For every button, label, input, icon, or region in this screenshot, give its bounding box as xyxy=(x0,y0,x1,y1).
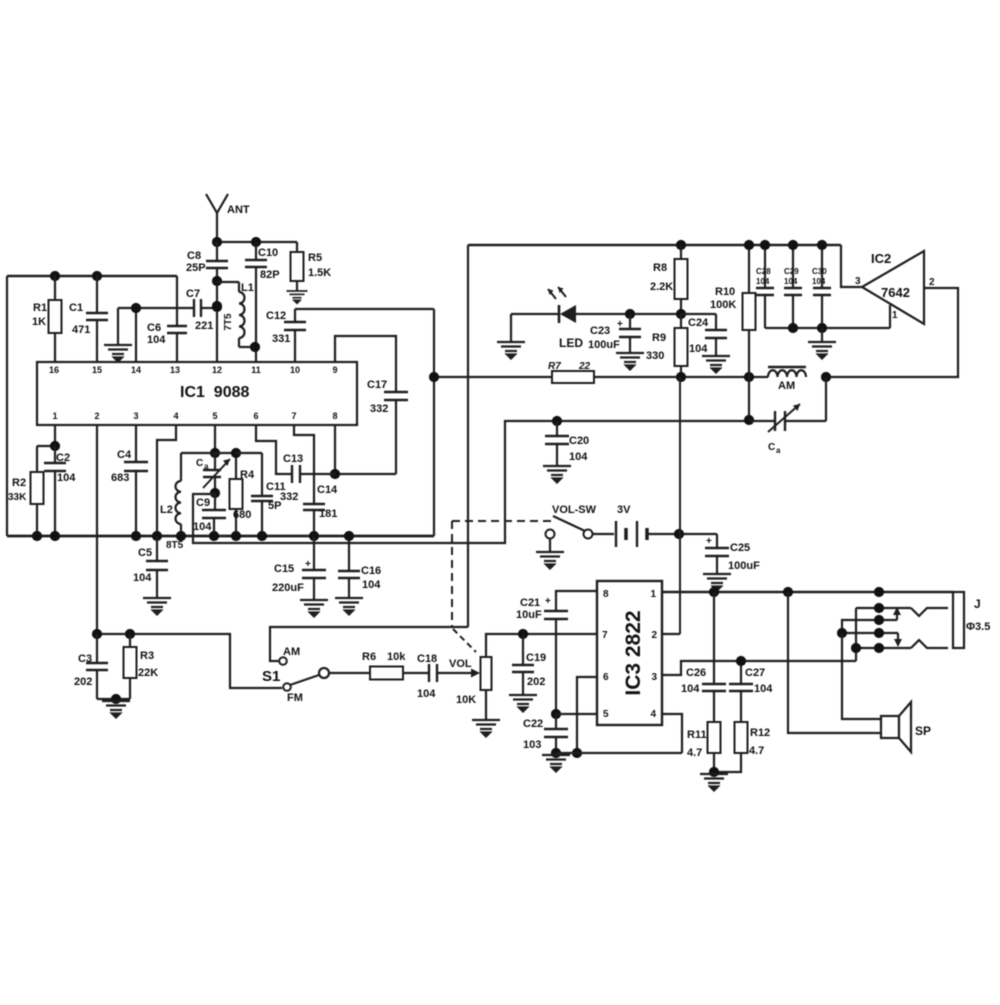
svg-text:471: 471 xyxy=(72,324,90,336)
svg-text:100K: 100K xyxy=(710,299,736,311)
wire rail down to S1 AM xyxy=(467,245,469,627)
wire pin4 jog to bus xyxy=(157,425,176,536)
svg-text:C15: C15 xyxy=(274,563,294,575)
svg-text:C: C xyxy=(196,458,203,469)
svg-text:100uF: 100uF xyxy=(588,339,620,351)
resistor R5 xyxy=(296,242,298,252)
node R9 bottom xyxy=(676,372,686,382)
inductor L2 xyxy=(181,452,236,454)
svg-text:C1: C1 xyxy=(69,302,83,314)
wire top-left supply rail xyxy=(7,275,177,278)
wire C18 to VOL wiper xyxy=(437,672,471,674)
wire LED left to ground xyxy=(510,314,512,341)
svg-text:C26: C26 xyxy=(686,667,706,679)
node pin1 xyxy=(50,441,60,451)
node C19 top xyxy=(518,629,528,639)
IC1 9088 radio IC body xyxy=(37,362,357,425)
svg-text:331: 331 xyxy=(272,333,290,345)
wire jack row5 xyxy=(856,647,911,649)
ground below VOL-SW xyxy=(536,552,564,569)
ground below C25 xyxy=(703,574,731,591)
resistor R1 xyxy=(54,276,56,300)
capacitor C25 electrolytic xyxy=(716,534,718,547)
capacitor C8 xyxy=(216,242,218,260)
svg-text:R10: R10 xyxy=(715,286,735,298)
svg-text:C20: C20 xyxy=(569,435,589,447)
wire audio takeoff around C9 xyxy=(193,421,749,543)
wire speaker bottom return xyxy=(788,592,881,733)
svg-text:202: 202 xyxy=(527,676,545,688)
node C2 bus xyxy=(50,531,60,541)
svg-text:C3: C3 xyxy=(78,653,92,665)
node R11 R12 ground xyxy=(709,767,719,777)
svg-text:7T5: 7T5 xyxy=(223,313,234,331)
node Ca C9 xyxy=(210,488,220,498)
svg-text:R12: R12 xyxy=(750,727,770,739)
svg-text:7: 7 xyxy=(602,630,608,641)
wire jack row4 arrow xyxy=(842,632,879,634)
capacitor C2 xyxy=(54,446,56,462)
svg-text:1K: 1K xyxy=(32,316,46,328)
node below C8 xyxy=(212,276,222,286)
svg-text:680: 680 xyxy=(233,509,251,521)
node row4 speaker xyxy=(837,628,847,638)
node C30 bottom ground xyxy=(817,323,827,333)
wire R7 to R9 R10 xyxy=(594,376,768,378)
capacitor C14 xyxy=(303,503,325,505)
svg-text:C29: C29 xyxy=(784,267,799,276)
svg-text:100uF: 100uF xyxy=(728,560,760,572)
svg-text:J: J xyxy=(974,597,981,611)
wire VOL top to IC3 pin7 xyxy=(486,634,597,657)
wire R6 to C18 xyxy=(403,672,428,674)
wire pin5 xyxy=(556,713,597,715)
capacitor C19 xyxy=(522,634,524,664)
node R10 bottom xyxy=(744,372,754,382)
resistor R9 xyxy=(680,314,682,328)
svg-text:C17: C17 xyxy=(367,379,387,391)
svg-text:104: 104 xyxy=(754,683,773,695)
ground below C23 xyxy=(616,353,644,370)
ground bus wire xyxy=(7,535,434,538)
svg-text:9: 9 xyxy=(332,365,337,375)
wire rail corner to IC2 pin3 xyxy=(841,245,862,287)
svg-text:221: 221 xyxy=(195,320,213,332)
node C28 rail xyxy=(760,240,770,250)
capacitor C22 xyxy=(555,714,557,728)
svg-text:L2: L2 xyxy=(160,504,173,516)
op-amp IC2 7642 xyxy=(862,251,924,324)
node jack feed xyxy=(874,587,884,597)
svg-text:12: 12 xyxy=(212,365,222,375)
node C23 top xyxy=(625,309,635,319)
svg-text:R11: R11 xyxy=(687,729,707,741)
svg-text:104: 104 xyxy=(681,683,700,695)
svg-text:C14: C14 xyxy=(317,484,338,496)
wire pin14 / ground stub xyxy=(118,307,193,309)
svg-text:15: 15 xyxy=(92,365,102,375)
ground IC2 pin1 line xyxy=(821,328,823,341)
wire pin8 down xyxy=(334,425,336,474)
svg-text:3V: 3V xyxy=(617,504,631,516)
node C29 rail xyxy=(788,240,798,250)
node pin12 C7 xyxy=(212,301,222,311)
node C4 bus xyxy=(131,531,141,541)
node pin14 wire xyxy=(131,303,141,313)
svg-text:C9: C9 xyxy=(196,497,210,509)
resistor R6 xyxy=(370,667,403,680)
svg-text:8: 8 xyxy=(603,589,609,600)
ground below LED wire xyxy=(497,342,525,359)
svg-text:Φ3.5: Φ3.5 xyxy=(966,621,990,633)
wire S1 common to R6 xyxy=(329,672,370,674)
svg-text:C12: C12 xyxy=(266,310,286,322)
svg-text:10: 10 xyxy=(290,365,300,375)
wire VOL-SW to ground xyxy=(549,539,551,551)
svg-text:C8: C8 xyxy=(187,250,201,262)
svg-text:R4: R4 xyxy=(240,469,255,481)
ground below C16 xyxy=(335,598,363,615)
node C27 pin3 xyxy=(736,656,746,666)
svg-text:4: 4 xyxy=(650,709,656,720)
node AM coil right xyxy=(821,372,831,382)
inductor L1 xyxy=(217,281,239,283)
wire left edge down to ground bus xyxy=(6,276,8,536)
node C9 bus xyxy=(209,531,219,541)
svg-text:104: 104 xyxy=(812,277,826,286)
node pin4 bus xyxy=(152,531,162,541)
node R2 bus xyxy=(32,531,42,541)
node C22 ground xyxy=(551,748,561,758)
node Ca left xyxy=(744,415,754,425)
svg-text:+: + xyxy=(617,319,623,330)
svg-text:104: 104 xyxy=(417,688,436,700)
svg-text:33K: 33K xyxy=(8,492,27,503)
svg-text:ANT: ANT xyxy=(227,204,250,216)
svg-text:+: + xyxy=(706,536,712,547)
wire pin1 output line xyxy=(662,591,953,594)
svg-text:332: 332 xyxy=(370,403,388,415)
wire pin3 to jack switch xyxy=(662,661,856,675)
svg-text:C10: C10 xyxy=(258,247,278,259)
svg-text:S1: S1 xyxy=(262,668,280,685)
svg-text:6: 6 xyxy=(603,672,609,683)
node R8 top xyxy=(676,240,686,250)
svg-text:C25: C25 xyxy=(730,542,750,554)
capacitor C10 xyxy=(255,242,257,259)
resistor R8 xyxy=(680,245,682,259)
svg-text:1: 1 xyxy=(650,589,656,600)
ground below C3 R3 xyxy=(102,701,130,718)
ground below C24 xyxy=(702,356,730,373)
node C7 right xyxy=(212,302,222,312)
node ant C8 xyxy=(212,237,222,247)
svg-text:C28: C28 xyxy=(756,267,771,276)
audio amplifier IC3 2822 xyxy=(597,581,662,725)
dashed mechanical link VOL-SW to tuning xyxy=(452,520,554,522)
node C20 top xyxy=(552,416,562,426)
svg-text:LED: LED xyxy=(559,336,583,350)
capacitor C18 xyxy=(428,664,430,682)
wire pin2 long vertical xyxy=(96,425,98,634)
svg-text:8: 8 xyxy=(332,411,337,421)
svg-text:103: 103 xyxy=(523,739,541,751)
svg-text:6: 6 xyxy=(253,411,258,421)
svg-text:5: 5 xyxy=(212,411,217,421)
node L2 bus xyxy=(176,531,186,541)
resistor R11 xyxy=(708,722,721,753)
svg-text:C2: C2 xyxy=(56,452,70,464)
svg-text:C16: C16 xyxy=(361,565,381,577)
capacitor C17 xyxy=(384,391,408,393)
node R3 top xyxy=(125,629,135,639)
ground below R5 xyxy=(287,291,308,303)
node C14 bus xyxy=(309,531,319,541)
svg-text:C5: C5 xyxy=(138,547,152,559)
capacitor C23 electrolytic xyxy=(629,314,631,328)
wire C12 to right vertical xyxy=(295,308,434,310)
svg-text:1: 1 xyxy=(52,411,57,421)
svg-text:16: 16 xyxy=(49,365,59,375)
resistor R4 xyxy=(235,453,237,479)
capacitor C27 xyxy=(740,661,742,683)
svg-text:1.5K: 1.5K xyxy=(308,267,331,279)
capacitor C9 xyxy=(214,493,216,509)
svg-text:3: 3 xyxy=(855,276,861,287)
wire VOL bottom to ground xyxy=(485,690,487,719)
capacitor C21 electrolytic xyxy=(544,610,568,612)
capacitor C28 xyxy=(764,245,766,287)
node R10 rail xyxy=(744,240,754,250)
svg-text:SP: SP xyxy=(915,724,931,738)
svg-text:R5: R5 xyxy=(308,252,322,264)
wire pin6 to ground line xyxy=(577,677,597,753)
LED indicator xyxy=(511,313,558,315)
wire jack row3 arrow xyxy=(842,620,897,633)
capacitor C30 xyxy=(821,245,823,287)
resistor R12 xyxy=(735,722,748,753)
svg-text:C7: C7 xyxy=(186,288,200,300)
wire pin4 jog xyxy=(662,714,682,753)
wire top supply rail right section xyxy=(468,244,841,247)
svg-text:2: 2 xyxy=(94,411,99,421)
svg-text:R3: R3 xyxy=(140,650,154,662)
node ant C10 xyxy=(251,237,261,247)
node row2 xyxy=(874,603,884,613)
wire battery rail down to pin2 xyxy=(679,377,681,534)
svg-text:C21: C21 xyxy=(520,597,540,609)
svg-text:2.2K: 2.2K xyxy=(650,281,673,293)
capacitor C5 xyxy=(156,536,158,560)
svg-text:C30: C30 xyxy=(812,267,827,276)
svg-text:3: 3 xyxy=(651,672,657,683)
svg-text:FM: FM xyxy=(287,692,303,704)
svg-text:104: 104 xyxy=(689,343,708,355)
wire pin9 to C17 xyxy=(335,336,396,391)
node C1 top xyxy=(92,271,102,281)
node L1 bottom xyxy=(250,342,260,352)
node C11 bus xyxy=(257,531,267,541)
capacitor C12 xyxy=(294,309,296,321)
wire pin5 down xyxy=(214,425,216,453)
svg-text:8T5: 8T5 xyxy=(166,540,184,551)
wire pin2 to S1 FM contact xyxy=(97,634,282,688)
svg-text:4: 4 xyxy=(173,411,178,421)
node pin8 C17 C13 xyxy=(330,469,340,479)
wire AGC line R7 xyxy=(434,376,552,378)
resistor R7 xyxy=(552,371,594,383)
svg-text:a: a xyxy=(776,446,781,455)
svg-text:AM: AM xyxy=(283,646,300,658)
svg-text:104: 104 xyxy=(569,451,588,463)
svg-text:C6: C6 xyxy=(147,322,161,334)
wire IC2 pin2 output loop xyxy=(826,288,958,377)
ground near C7 xyxy=(117,308,119,345)
ground below C20 xyxy=(543,466,571,483)
svg-text:C24: C24 xyxy=(688,317,709,329)
wire ground line to pin4 xyxy=(556,752,682,754)
node R8 R9 xyxy=(676,309,686,319)
svg-text:C4: C4 xyxy=(117,449,132,461)
svg-text:1: 1 xyxy=(892,310,898,321)
potentiometer VOL xyxy=(481,657,492,690)
svg-text:R9: R9 xyxy=(652,332,666,344)
svg-text:VOL: VOL xyxy=(449,658,472,670)
jack J body xyxy=(953,592,964,648)
svg-text:330: 330 xyxy=(646,350,664,362)
svg-text:683: 683 xyxy=(111,472,129,484)
node pin6 ground xyxy=(572,748,582,758)
svg-text:13: 13 xyxy=(170,365,180,375)
resistor R2 xyxy=(36,446,38,472)
ground below C15 xyxy=(300,600,328,617)
node pin5 tank xyxy=(210,448,220,458)
variable capacitor Ca AM tuning xyxy=(749,420,774,422)
svg-text:+: + xyxy=(305,559,311,570)
capacitor C26 xyxy=(713,592,715,683)
svg-text:AM: AM xyxy=(778,380,795,392)
svg-text:VOL-SW: VOL-SW xyxy=(552,504,597,516)
svg-text:202: 202 xyxy=(74,676,92,688)
svg-text:11: 11 xyxy=(251,365,261,375)
wire C24 feed xyxy=(681,313,716,315)
antenna ANT xyxy=(216,211,218,242)
svg-text:7642: 7642 xyxy=(881,285,910,300)
wire battery to rail xyxy=(647,533,717,535)
svg-text:2: 2 xyxy=(929,277,935,288)
wire cap bottoms to IC2 pin1 xyxy=(765,327,890,329)
wire speaker top feed xyxy=(842,633,881,719)
node C30 rail xyxy=(817,240,827,250)
node speaker return xyxy=(783,587,793,597)
svg-text:14: 14 xyxy=(131,365,141,375)
svg-text:R2: R2 xyxy=(12,477,26,489)
node C16 bus xyxy=(344,531,354,541)
svg-text:332: 332 xyxy=(280,491,298,503)
node C3 top xyxy=(92,629,102,639)
ground below C5 xyxy=(143,598,171,615)
speaker SP xyxy=(881,716,899,738)
resistor R3 xyxy=(129,634,131,647)
capacitor C7 xyxy=(193,299,195,317)
svg-text:104: 104 xyxy=(756,277,770,286)
svg-text:C22: C22 xyxy=(523,718,543,730)
wire pin1 to C2 R2 xyxy=(54,425,56,446)
ground below R11 R12 xyxy=(700,774,728,791)
inductor AM antenna coil xyxy=(768,370,806,377)
capacitor C4 xyxy=(135,425,137,461)
svg-text:IC3 2822: IC3 2822 xyxy=(622,610,645,695)
svg-text:22: 22 xyxy=(578,361,591,372)
node row5 left xyxy=(851,643,861,653)
svg-text:C13: C13 xyxy=(283,453,303,465)
svg-text:104: 104 xyxy=(193,521,212,533)
svg-text:C18: C18 xyxy=(417,653,437,665)
svg-text:R7: R7 xyxy=(548,361,561,372)
svg-text:7: 7 xyxy=(291,411,296,421)
svg-text:104: 104 xyxy=(362,579,381,591)
svg-text:R6: R6 xyxy=(362,651,376,663)
node C21 C22 pin5 xyxy=(551,709,561,719)
wire jack switch row2 xyxy=(855,608,857,661)
svg-text:25P: 25P xyxy=(186,262,206,274)
ground below C22 xyxy=(542,755,570,772)
capacitor C13 xyxy=(291,465,293,483)
svg-text:220uF: 220uF xyxy=(272,582,304,594)
svg-text:181: 181 xyxy=(319,508,337,520)
node row4 right xyxy=(874,628,884,638)
svg-text:C23: C23 xyxy=(590,325,610,337)
svg-text:104: 104 xyxy=(57,472,76,484)
svg-text:22K: 22K xyxy=(138,667,158,679)
wire pin7 to C14 xyxy=(294,425,314,503)
ground below C19 xyxy=(509,695,537,712)
capacitor C24 xyxy=(705,329,727,331)
svg-text:C27: C27 xyxy=(745,667,765,679)
variable capacitor Ca FM section xyxy=(214,453,216,469)
capacitor C11 xyxy=(236,452,262,454)
wire pin6 to C13 xyxy=(256,425,291,474)
node row5 xyxy=(874,643,884,653)
capacitor C20 xyxy=(556,421,558,435)
node C26 top xyxy=(709,587,719,597)
node C29 bottom xyxy=(788,323,798,333)
svg-text:4.7: 4.7 xyxy=(749,745,764,757)
svg-text:10K: 10K xyxy=(456,694,476,706)
node R1 top xyxy=(50,271,60,281)
svg-text:a: a xyxy=(204,462,209,471)
capacitor C16 xyxy=(348,536,350,570)
node C3 R3 ground xyxy=(111,694,121,704)
svg-text:104: 104 xyxy=(147,334,166,346)
svg-text:IC2: IC2 xyxy=(871,251,891,266)
svg-text:IC1 9088: IC1 9088 xyxy=(180,384,249,401)
node row3 xyxy=(874,615,884,625)
capacitor C29 xyxy=(792,245,794,287)
svg-text:82P: 82P xyxy=(260,269,280,281)
svg-text:+: + xyxy=(545,596,551,607)
capacitor C6 xyxy=(176,276,178,325)
svg-text:4.7: 4.7 xyxy=(687,747,702,759)
capacitor C3 xyxy=(96,634,98,662)
wire R10 to Ca xyxy=(748,377,750,421)
svg-text:104: 104 xyxy=(133,572,152,584)
switch S1 xyxy=(279,657,287,665)
resistor R10 xyxy=(748,245,750,293)
svg-text:2: 2 xyxy=(651,630,657,641)
svg-text:R1: R1 xyxy=(33,302,47,314)
capacitor C15 electrolytic xyxy=(313,536,315,569)
